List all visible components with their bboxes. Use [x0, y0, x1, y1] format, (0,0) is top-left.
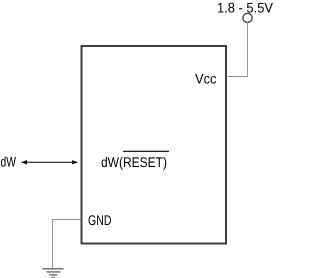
ground symbol	[42, 269, 63, 278]
svg-text:dW(RESET): dW(RESET)	[101, 154, 167, 170]
overline over RESET	[123, 150, 169, 152]
IC body U1	[82, 46, 227, 244]
svg-text:1.8 - 5.5V: 1.8 - 5.5V	[217, 0, 274, 15]
supply terminal circle	[243, 13, 252, 22]
wire dW: double-headed arrow into box	[21, 160, 78, 164]
svg-text:GND: GND	[88, 212, 112, 228]
wire Vcc: from terminal down then left into box	[227, 22, 248, 76]
wire GND: from box left edge to ground	[53, 220, 81, 269]
svg-text:dW: dW	[1, 154, 17, 170]
svg-text:Vcc: Vcc	[195, 71, 217, 87]
